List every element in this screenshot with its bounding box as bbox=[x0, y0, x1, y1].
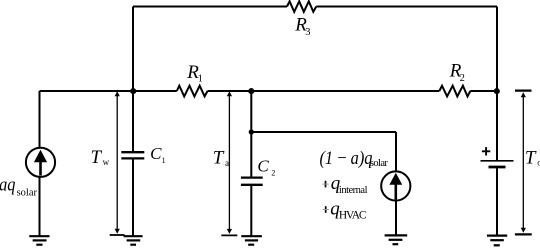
wire top-right horizontal segment bbox=[316, 6, 497, 8]
wire middle horizontal center segment (Ta node) bbox=[208, 90, 440, 92]
battery V To bbox=[481, 161, 514, 167]
resistor R1 bbox=[177, 86, 208, 97]
svg-text:solar: solar bbox=[17, 188, 38, 199]
junction node Ta bbox=[248, 88, 254, 94]
current source (1-a)q_solar + q_internal + q_HVAC bbox=[381, 171, 410, 200]
wire below capacitor C2 to ground bbox=[250, 186, 252, 236]
svg-text:T: T bbox=[91, 147, 103, 168]
svg-text:a: a bbox=[225, 158, 229, 168]
wire middle horizontal left segment (Tw node) bbox=[40, 90, 177, 92]
measurement arrow To bbox=[515, 91, 532, 235]
wire top-left horizontal segment bbox=[133, 6, 287, 8]
svg-text:3: 3 bbox=[305, 27, 310, 38]
junction inner branch bbox=[249, 129, 254, 134]
wire below capacitor C1 to ground bbox=[132, 159, 134, 236]
capacitor C1 bbox=[121, 152, 144, 158]
label +q_internal bbox=[322, 181, 328, 188]
svg-text:solar: solar bbox=[370, 158, 389, 169]
wire left branch down to current source and ground bbox=[39, 91, 41, 236]
label +q_HVAC bbox=[323, 206, 329, 213]
wire right vertical from top wire down to node To junction bbox=[496, 7, 498, 161]
svg-text:1: 1 bbox=[162, 156, 166, 165]
wire C2 branch down from Ta node bbox=[250, 91, 252, 177]
svg-text:internal: internal bbox=[339, 185, 368, 196]
resistor R2 bbox=[439, 86, 470, 97]
capacitor C2 bbox=[241, 178, 263, 185]
svg-text:T: T bbox=[525, 148, 537, 169]
ground under C1 bbox=[124, 236, 143, 245]
measurement arrow Ta bbox=[221, 91, 237, 235]
junction node Tw bbox=[130, 88, 136, 94]
svg-text:(1 − a)q: (1 − a)q bbox=[320, 147, 373, 168]
ground under battery bbox=[487, 236, 507, 246]
junction node To bbox=[494, 88, 500, 94]
svg-text:T: T bbox=[213, 148, 225, 169]
svg-text:HVAC: HVAC bbox=[339, 210, 367, 222]
wire left vertical from top wire down through node Tw to capacitor C1 bbox=[132, 7, 134, 152]
svg-text:1: 1 bbox=[198, 73, 203, 84]
measurement arrow Tw bbox=[110, 91, 125, 235]
battery plus sign bbox=[482, 147, 490, 155]
current source aq_solar bbox=[26, 148, 55, 177]
wire middle horizontal right segment bbox=[470, 90, 497, 92]
ground under second source bbox=[385, 235, 408, 244]
svg-text:2: 2 bbox=[271, 168, 275, 177]
svg-text:C: C bbox=[150, 144, 162, 163]
wire inner branch horizontal to second source bbox=[251, 131, 396, 133]
resistor R3 bbox=[287, 1, 316, 12]
wire inner branch vertical down through source to ground bbox=[395, 132, 397, 235]
wire below battery to ground bbox=[496, 168, 498, 236]
svg-text:aq: aq bbox=[0, 173, 16, 194]
ground under aq_solar bbox=[29, 236, 49, 245]
svg-text:w: w bbox=[103, 157, 110, 167]
svg-text:2: 2 bbox=[460, 73, 465, 84]
svg-text:C: C bbox=[257, 157, 269, 176]
ground under C2 bbox=[241, 236, 262, 245]
